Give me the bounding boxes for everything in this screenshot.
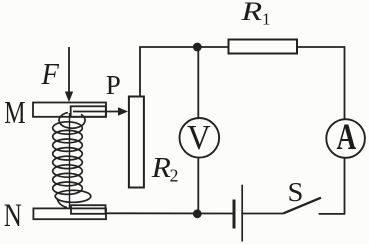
label S [288,178,304,208]
label R1 [240,0,270,29]
wire junction top to voltmeter [197,47,199,118]
spring coil [53,113,91,208]
label N [4,198,22,234]
wire R1 to top-right corner down to ammeter [297,47,345,119]
wire R2 top to junction [140,47,197,97]
label R2 [151,151,179,185]
svg-text:A: A [337,116,357,157]
voltmeter V [180,118,220,158]
wire voltmeter to junction bottom [197,158,199,214]
svg-text:V: V [187,119,211,157]
svg-text:M: M [4,96,25,131]
resistor R1 [229,40,298,54]
svg-text:S: S [288,178,304,208]
battery [234,185,242,242]
node junction bottom [193,209,202,218]
plate N [33,205,106,219]
spring guide rod [69,113,71,208]
wire ammeter to switch contact [319,158,345,214]
wire battery to switch [243,213,284,215]
node junction top [193,43,202,52]
wire plate N to battery [106,212,235,214]
svg-text:R: R [240,0,262,26]
label M [4,96,25,131]
force arrow F [65,47,73,102]
svg-text:2: 2 [170,166,179,186]
rheostat R2 [129,97,144,188]
svg-text:N: N [4,198,22,234]
svg-text:F: F [41,57,60,91]
plate M [33,103,106,117]
svg-text:P: P [106,70,121,100]
ammeter A [326,116,365,158]
svg-text:1: 1 [262,10,271,29]
svg-text:R: R [151,151,171,184]
label P [106,70,121,100]
pointer P [73,107,128,115]
wire junction to R1 [197,46,228,48]
label F [41,57,60,91]
switch S blade [284,198,322,214]
